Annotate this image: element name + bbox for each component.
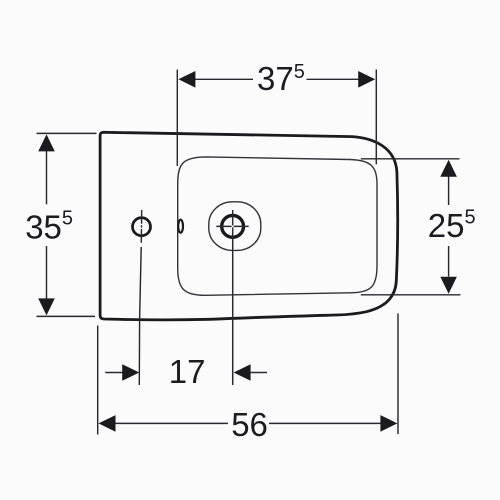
svg-text:56: 56	[231, 406, 268, 443]
svg-text:17: 17	[169, 353, 206, 390]
